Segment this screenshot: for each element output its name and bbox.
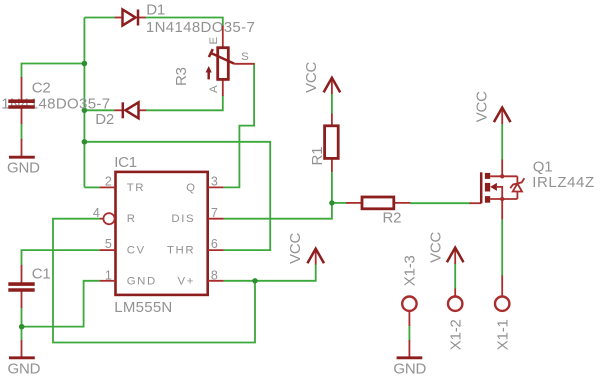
wire R2 right to Q1 gate [410,202,471,204]
svg-text:R2: R2 [383,210,402,227]
supply VCC (above X1-2) [447,248,464,264]
svg-text:GND: GND [8,360,41,377]
IC IC1 LM555N outline [116,172,208,295]
wire pin5 to C1 top [22,250,100,266]
wire V+ junction to reset rail [53,219,255,343]
svg-text:D2: D2 [95,111,114,128]
svg-text:GND: GND [393,361,426,378]
pin 6 stub [208,249,224,251]
svg-text:5: 5 [105,237,112,251]
diode D1 [115,10,146,26]
wire DIS pin7 to R1/R2 junction [224,203,332,219]
wire node TR/THR left vertical [83,18,85,188]
junction V+ rail [252,278,257,283]
wire C1 bottom to GND junction [21,307,23,341]
svg-text:VCC: VCC [303,61,320,92]
wire R1 bottom to junction [331,171,333,203]
pin 2 stub [100,186,116,188]
svg-text:C1: C1 [32,265,51,282]
svg-text:A: A [208,85,220,93]
svg-text:E: E [208,37,220,45]
wire THR: node to pin6 [84,142,270,250]
connector X1-3 [402,297,416,327]
svg-text:VCC: VCC [474,91,491,122]
svg-text:4: 4 [93,206,100,220]
ground GND (below C1) [9,340,35,358]
wire Q1 source to X1-1 [501,219,503,276]
resistor R1 [325,114,339,172]
junction R1/R2/DIS [329,200,334,205]
resistor R2 [346,197,410,209]
svg-text:3: 3 [211,174,218,188]
wire TR: node to pin2 [84,186,99,188]
svg-text:IC1: IC1 [114,154,137,171]
svg-text:1N4148DO35-7: 1N4148DO35-7 [146,19,255,36]
wire D2 cathode to node [84,109,114,111]
wire VCC to R1 top [331,94,333,115]
wire C2 bottom to GND [21,123,23,140]
svg-text:C2: C2 [32,79,51,96]
supply VCC (above Q1) [494,108,511,125]
pin 5 stub [100,249,116,251]
wire X1-2 to VCC [454,264,456,290]
svg-text:R1: R1 [309,147,326,166]
junction node THR wire [82,139,88,145]
wire R3 A to D2 anode [146,95,223,110]
svg-text:R3: R3 [173,67,190,86]
svg-text:X1-2: X1-2 [447,319,464,350]
potentiometer R3 [206,26,255,97]
wire X1-3 to GND [408,325,410,341]
svg-text:Q1: Q1 [533,158,553,175]
wire GND junction to pin1 [22,281,100,327]
pin 1 stub [100,280,116,282]
svg-text:THR: THR [167,244,195,256]
svg-text:VCC: VCC [428,231,445,262]
wire C2 top branch [22,64,85,79]
wire pin8 to VCC corner [224,264,316,281]
pin 4 stub + inversion circle [100,213,116,224]
pin 7 stub [208,218,224,220]
svg-text:CV: CV [127,244,146,256]
capacitor C1 [8,265,34,308]
svg-text:LM555N: LM555N [114,299,172,316]
svg-text:R: R [127,213,135,225]
svg-text:Q: Q [186,182,195,194]
connector X1-1 [495,276,509,311]
wire D1 top horizontal left [84,17,115,19]
svg-text:8: 8 [211,268,218,282]
diode D2 [114,102,146,118]
wire D1 to R3 E [145,18,223,27]
svg-text:GND: GND [127,276,157,288]
svg-text:X1-3: X1-3 [402,255,419,286]
svg-text:TR: TR [127,182,145,194]
svg-text:2: 2 [105,174,112,188]
svg-text:DIS: DIS [171,213,195,225]
wire VCC to Q1 drain [501,124,503,161]
pin 3 stub [208,186,224,188]
svg-text:6: 6 [211,237,218,251]
svg-text:1: 1 [105,268,112,282]
wire R3 S to Q pin3 [224,63,255,187]
junction node C2/top [82,61,88,67]
ground GND (below X1-3) [397,340,423,358]
svg-text:D1: D1 [146,1,165,18]
capacitor C2 [8,77,34,124]
svg-text:7: 7 [211,206,218,220]
svg-text:VCC: VCC [287,232,304,263]
junction C1/GND [19,324,25,330]
svg-text:V+: V+ [178,276,195,288]
junction node D2 [82,108,88,114]
pin 8 stub [208,280,224,282]
wire junction to R2 left [332,202,346,204]
svg-text:S: S [241,51,249,63]
connector X1-2 [448,289,462,311]
svg-text:1N4148DO35-7: 1N4148DO35-7 [1,95,110,112]
svg-text:X1-1: X1-1 [494,319,511,350]
supply VCC (above R1) [324,78,341,94]
ground GND (below C2) [9,139,35,157]
supply VCC (pin8 rail) [307,249,324,265]
svg-text:GND: GND [7,159,40,176]
svg-text:IRLZ44Z: IRLZ44Z [532,174,595,191]
transistor Q1 IRLZ44Z [470,160,525,220]
